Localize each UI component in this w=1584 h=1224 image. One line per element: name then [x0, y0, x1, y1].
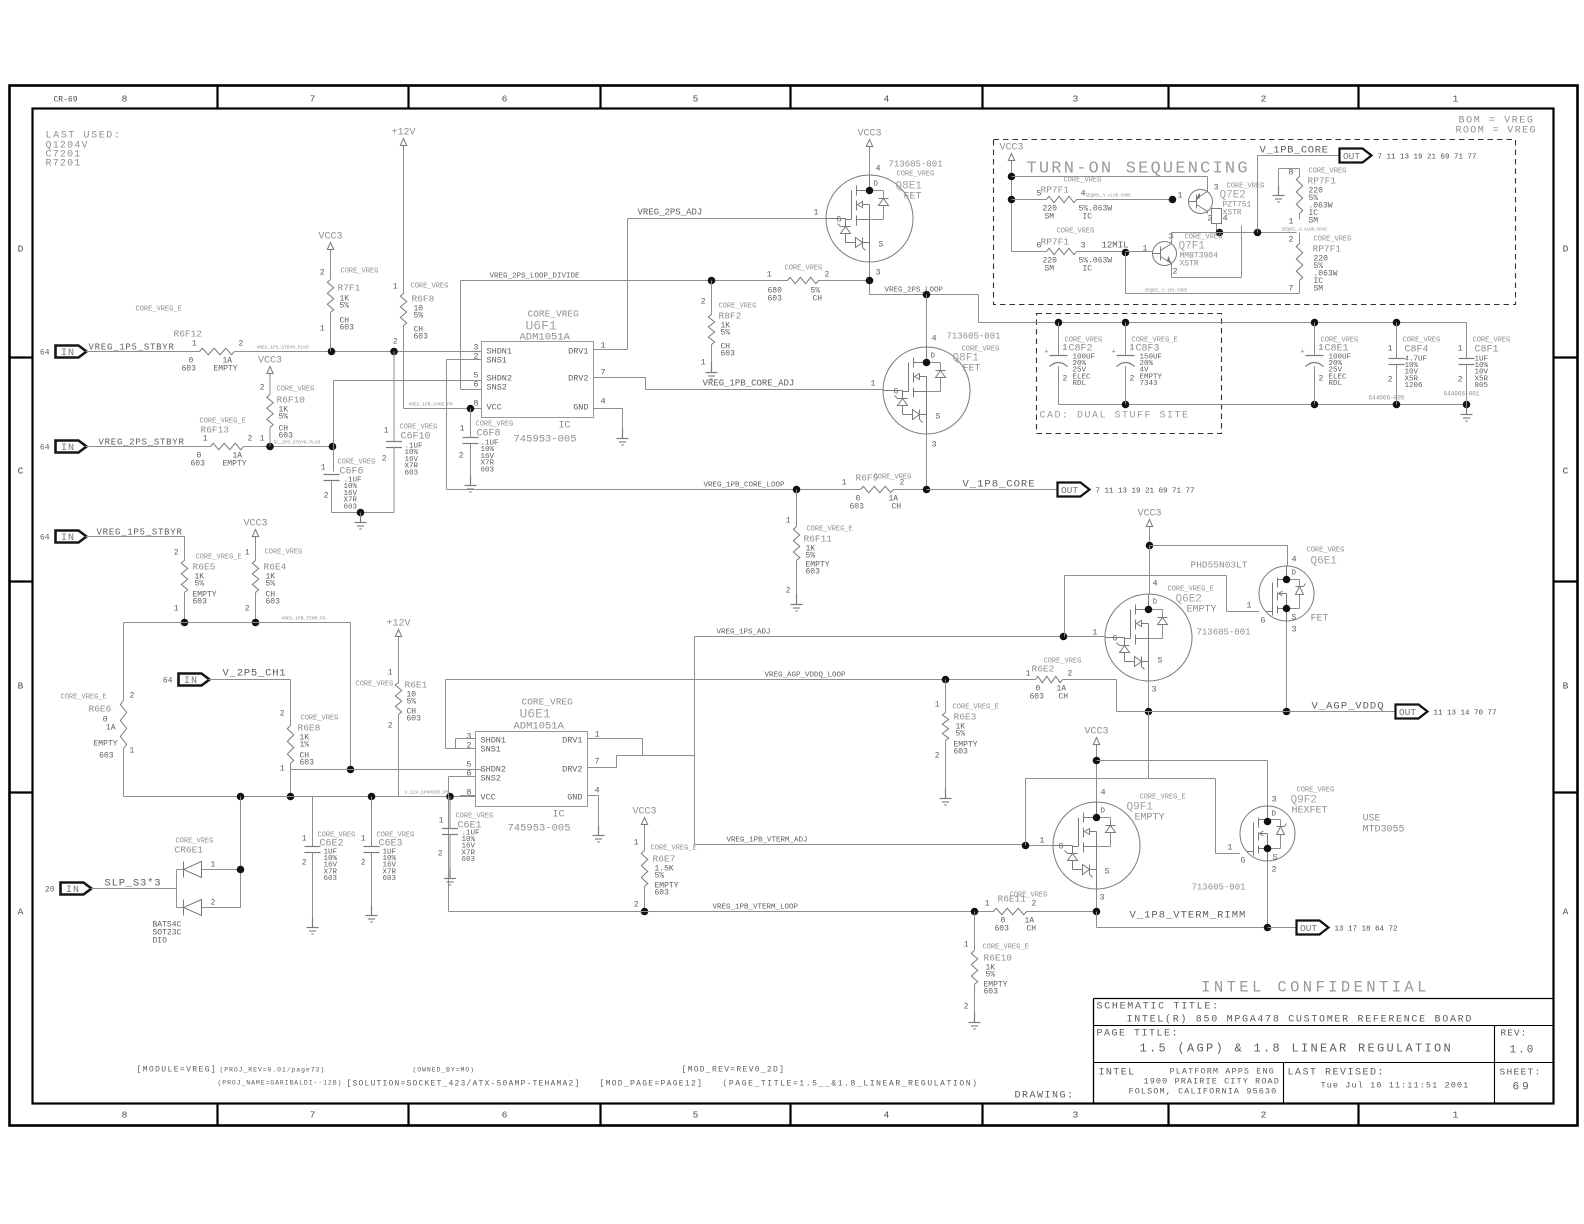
svg-text:2: 2 — [211, 899, 216, 908]
svg-text:CORE_VREG_E: CORE_VREG_E — [61, 694, 107, 702]
svg-text:CORE_VREG: CORE_VREG — [338, 459, 376, 467]
svg-text:EMPTY: EMPTY — [1187, 605, 1217, 616]
svg-text:2: 2 — [1261, 1110, 1267, 1121]
svg-text:GND: GND — [567, 793, 582, 803]
input port IN V_2P5_CH1 (pin 64) — [163, 674, 210, 688]
wire Q6E2 source — [1148, 681, 1150, 712]
svg-text:1%: 1% — [300, 741, 310, 750]
junction top bus x1058 — [1055, 319, 1063, 327]
junction CR6E1 node — [237, 866, 245, 874]
svg-text:SNS2: SNS2 — [481, 774, 501, 784]
svg-text:CORE_VREG: CORE_VREG — [1064, 177, 1102, 185]
svg-text:Q6E1: Q6E1 — [1311, 556, 1338, 568]
svg-text:FET: FET — [904, 192, 922, 203]
wire VREG_1PB_VTERM_ADJ — [695, 844, 1026, 846]
input port IN VREG_1P5_STBYR b (pin 64) — [40, 531, 87, 545]
svg-text:1: 1 — [786, 517, 791, 526]
wire DRV1 to VREG_2PS_ADJ — [594, 219, 628, 350]
power +12V above R6F8 — [391, 128, 415, 148]
wire VREG_1PS_STBYR_PLUS — [235, 345, 482, 352]
svg-text:3: 3 — [1292, 625, 1297, 635]
wire VCC3 to Q9F1 — [1096, 747, 1098, 803]
svg-text:1: 1 — [460, 425, 465, 434]
svg-text:2: 2 — [786, 587, 791, 596]
svg-text:2: 2 — [1288, 235, 1293, 245]
svg-text:D: D — [1272, 811, 1277, 819]
svg-text:OUT: OUT — [1061, 485, 1078, 496]
svg-text:TURN-ON SEQUENCING: TURN-ON SEQUENCING — [1027, 160, 1250, 179]
ground in sequencing box — [1273, 186, 1285, 203]
svg-text:4: 4 — [601, 397, 606, 407]
svg-text:SCHEMATIC TITLE:: SCHEMATIC TITLE: — [1097, 1002, 1220, 1013]
svg-text:EMPTY: EMPTY — [1135, 813, 1165, 824]
capacitor C6F6 — [321, 459, 376, 513]
junction Q8E1 source node — [866, 277, 874, 285]
svg-text:603: 603 — [193, 598, 208, 607]
junction VTERM at Q9F1 — [1093, 908, 1101, 916]
junction bus796 at R6E8 — [287, 793, 295, 801]
svg-text:D: D — [931, 353, 936, 361]
svg-text:G: G — [1059, 843, 1064, 852]
svg-text:S: S — [1105, 868, 1110, 877]
svg-text:CORE_VREG: CORE_VREG — [411, 283, 449, 291]
svg-text:SM: SM — [1314, 285, 1324, 294]
wire U6E1 VCC stub — [461, 796, 476, 797]
resistor RP7F1 5-4 — [1012, 177, 1173, 222]
svg-text:7: 7 — [310, 1110, 316, 1121]
label CAD DUAL STUFF SITE — [1040, 411, 1190, 422]
junction bottom bus x1396 — [1393, 401, 1401, 409]
junction bottom bus gnd — [1463, 401, 1471, 409]
svg-text:(PAGE_TITLE=1.5__&1.8_LINEAR_R: (PAGE_TITLE=1.5__&1.8_LINEAR_REGULATION) — [723, 1080, 979, 1089]
svg-text:603: 603 — [984, 988, 999, 997]
net label VREG_AGP_VDDQ_LOOP — [765, 672, 847, 680]
wire VCC3 to R6E7 — [644, 827, 646, 851]
ground below C6E3 — [366, 906, 378, 923]
svg-text:2: 2 — [1272, 865, 1277, 875]
resistor R6E1 — [356, 669, 428, 797]
svg-text:FET: FET — [963, 364, 981, 375]
svg-text:IC: IC — [1083, 265, 1093, 274]
wire seq mid row — [1220, 232, 1297, 234]
svg-text:CORE_VREG: CORE_VREG — [874, 474, 912, 482]
svg-text:R6E5: R6E5 — [193, 562, 216, 573]
wire VCC3 to R7F1 — [330, 252, 332, 280]
svg-text:7 11 13 19 21 69 71 77: 7 11 13 19 21 69 71 77 — [1378, 154, 1477, 162]
svg-text:R6E11: R6E11 — [998, 894, 1027, 905]
resistor R6F8 — [393, 283, 449, 409]
wire Q7F1 base bottom loop — [1126, 253, 1300, 294]
ground below R6E3 — [940, 789, 952, 806]
wire VCC3 to Q6E2/Q6E1 — [1149, 529, 1151, 552]
wire Q6E2 gate node — [1064, 636, 1106, 638]
svg-text:1: 1 — [1063, 344, 1068, 353]
junction top bus x1314 — [1311, 319, 1319, 327]
wire VREG_1PB_VTERM_LOOP — [449, 911, 994, 913]
dashed box CAD DUAL STUFF SITE — [1037, 314, 1222, 434]
svg-text:G: G — [1241, 857, 1246, 866]
svg-text:V_1P8_VTERM_RIMM: V_1P8_VTERM_RIMM — [1130, 910, 1247, 922]
transistor Q8E1 (FET 713605-001) — [813, 160, 942, 278]
svg-text:1: 1 — [280, 765, 285, 774]
wire U6E1 SHDN1 stub — [456, 739, 476, 749]
wire CR6E1 to bus796 — [240, 797, 242, 870]
svg-text:S: S — [879, 241, 884, 250]
svg-text:2: 2 — [935, 752, 940, 761]
wire VTERM to out — [1268, 927, 1297, 929]
svg-text:2: 2 — [825, 271, 830, 280]
svg-text:6: 6 — [502, 94, 508, 105]
wire VREG_AGP_VDDQ_LOOP — [446, 679, 1036, 681]
svg-text:1: 1 — [701, 359, 706, 368]
net label VREG_2PS_LOOP — [885, 287, 944, 295]
svg-text:CORE_VREG: CORE_VREG — [897, 171, 935, 179]
wire Q6E2 drain — [1149, 546, 1151, 595]
svg-text:G: G — [1113, 635, 1118, 644]
svg-text:6: 6 — [502, 1110, 508, 1121]
svg-text:1: 1 — [302, 835, 307, 844]
svg-text:ADM1051A: ADM1051A — [514, 721, 565, 733]
wire V_2P5_CH1 to R6E8 — [209, 680, 291, 726]
svg-text:D: D — [1292, 570, 1297, 578]
wire shdn2 row — [291, 769, 482, 771]
svg-text:C: C — [1563, 466, 1569, 477]
diode CR6E1 BATS4C — [153, 838, 241, 946]
input port IN VREG_2PS_STBYR (pin 64) — [40, 441, 87, 455]
svg-text:8: 8 — [1288, 168, 1293, 178]
junction V_AGP at Q6E1 — [1283, 708, 1291, 716]
junction VREG_2PS_LOOP at Q8F1 drain — [923, 291, 931, 299]
svg-text:64: 64 — [163, 677, 173, 686]
svg-text:1: 1 — [260, 435, 265, 444]
svg-text:IC: IC — [552, 810, 564, 821]
junction Q9F1 gate — [1022, 842, 1030, 850]
svg-text:VREG_2PS_LOOP_DIVIDE: VREG_2PS_LOOP_DIVIDE — [490, 273, 581, 281]
svg-text:3: 3 — [1073, 1110, 1079, 1121]
junction Q7E2 emitter row — [1216, 229, 1224, 237]
svg-text:V_1PB_CORE: V_1PB_CORE — [1260, 145, 1329, 157]
svg-text:PAGE TITLE:: PAGE TITLE: — [1097, 1029, 1180, 1040]
net label VREG_1PB_CORE_ADJ — [703, 379, 795, 389]
svg-text:2: 2 — [248, 435, 253, 444]
svg-text:4: 4 — [1292, 555, 1297, 565]
svg-text:[MODULE=VREG]: [MODULE=VREG] — [137, 1066, 218, 1075]
dashed box TURN-ON SEQUENCING — [994, 140, 1516, 305]
junction bus622 at R6E4 — [252, 619, 260, 627]
svg-text:R6F10: R6F10 — [277, 395, 306, 406]
resistor R6E3 — [935, 680, 999, 789]
svg-text:4: 4 — [932, 334, 937, 344]
svg-text:R6E1: R6E1 — [405, 680, 428, 691]
resistor R6E11 — [985, 892, 1097, 934]
svg-text:7: 7 — [1288, 284, 1293, 294]
wire VREG_2PS_ADJ — [628, 218, 827, 220]
svg-text:CORE_VREG: CORE_VREG — [719, 303, 757, 311]
svg-text:LAST REVISED:: LAST REVISED: — [1288, 1068, 1386, 1079]
svg-text:603: 603 — [462, 856, 476, 864]
svg-text:1: 1 — [388, 669, 393, 678]
junction CORE_LOOP at R6F11 — [793, 486, 801, 494]
output port OUT V_1P8_CORE — [1058, 483, 1195, 497]
junction bottom bus x1125 — [1122, 401, 1130, 409]
svg-text:IC: IC — [558, 421, 570, 432]
svg-text:8: 8 — [122, 94, 128, 105]
net label VREG_1P5_STBYR — [89, 343, 175, 353]
svg-text:2: 2 — [701, 298, 706, 307]
svg-text:2: 2 — [320, 269, 325, 278]
svg-text:S: S — [1292, 614, 1297, 623]
svg-text:603: 603 — [99, 752, 114, 761]
junction bus796 C6E3 — [368, 793, 376, 801]
net label SLP_S3*3 — [105, 878, 162, 890]
resistor R7F1 — [320, 268, 379, 352]
power VCC3 above Q6E2 — [1137, 509, 1161, 529]
svg-text:2: 2 — [245, 605, 250, 614]
svg-text:[MOD_REV=REV0_2D]: [MOD_REV=REV0_2D] — [682, 1066, 786, 1075]
svg-text:5: 5 — [693, 1110, 699, 1121]
net label VREG_1PB_VTERM_LOOP — [713, 904, 799, 912]
svg-text:1: 1 — [439, 817, 444, 826]
svg-text:S: S — [1158, 657, 1163, 666]
wire VREG_2PS_LOOP to stuff-site bus — [978, 295, 980, 323]
svg-text:R8F2: R8F2 — [719, 311, 742, 322]
label USE MTD3055 — [1363, 814, 1405, 836]
svg-text:PHD55N03LT: PHD55N03LT — [1191, 560, 1248, 571]
junction seq mid row at stack — [1254, 229, 1262, 237]
input port IN VREG_1P5_STBYR (pin 64) — [40, 346, 87, 360]
wire U6E1 SNS1 to VDDQ loop — [446, 680, 476, 749]
svg-text:4: 4 — [595, 786, 600, 796]
svg-text:7343: 7343 — [1140, 380, 1159, 388]
svg-text:69: 69 — [1513, 1082, 1532, 1094]
svg-text:VREG_1PB_CORE_PM: VREG_1PB_CORE_PM — [409, 402, 453, 408]
svg-text:R6E4: R6E4 — [264, 562, 287, 573]
svg-text:INTEL(R) 850 MPGA478 CUSTOMER: INTEL(R) 850 MPGA478 CUSTOMER REFERENCE … — [1127, 1014, 1474, 1026]
wire +12V down to R6F8 — [403, 148, 405, 294]
svg-text:CH: CH — [892, 503, 902, 512]
transistor Q9F2 HEXFET — [1227, 787, 1334, 875]
wire VCC3 to R6E4 — [255, 539, 257, 561]
svg-text:DIO: DIO — [153, 937, 168, 946]
svg-text:603: 603 — [1030, 693, 1045, 702]
svg-text:2: 2 — [130, 692, 135, 701]
svg-text:G: G — [837, 216, 842, 225]
svg-text:DRV2: DRV2 — [562, 765, 582, 775]
junction bus796 CR6E1 — [237, 793, 245, 801]
svg-text:1: 1 — [1026, 670, 1031, 679]
svg-text:VREG_2PS_ADJ: VREG_2PS_ADJ — [638, 208, 703, 218]
power VCC3 above Q9F1 — [1084, 727, 1108, 747]
ic U6E1 ADM1051A — [466, 697, 599, 835]
wire row2 to junctions — [244, 440, 334, 447]
junction seq vcc row1 — [1008, 173, 1016, 181]
svg-text:713605-001: 713605-001 — [947, 332, 1001, 342]
svg-text:ADM1051A: ADM1051A — [520, 332, 571, 344]
svg-text:G: G — [894, 388, 899, 397]
svg-text:1: 1 — [321, 464, 326, 473]
svg-text:603: 603 — [806, 568, 821, 577]
wire gate loop to Q6E1 — [1065, 576, 1260, 637]
ground below cap bus — [355, 513, 367, 530]
svg-text:1206: 1206 — [1405, 382, 1424, 390]
svg-text:5%: 5% — [195, 580, 205, 589]
junction divide at R8F2 — [708, 277, 716, 285]
svg-text:VREG_1PS_ADJ: VREG_1PS_ADJ — [717, 629, 771, 637]
wire V_1PB_CORE from stack — [1258, 156, 1340, 233]
wire VREG_1PS_ADJ — [695, 636, 1064, 638]
svg-text:+12V: +12V — [386, 619, 410, 630]
svg-text:713605-001: 713605-001 — [1197, 628, 1251, 638]
junction VCC3 Q9F1 — [1093, 757, 1101, 765]
svg-text:1: 1 — [1177, 191, 1182, 201]
svg-text:U6E1: U6E1 — [520, 707, 551, 722]
svg-text:VREG_AGP_VDDQ_LOOP: VREG_AGP_VDDQ_LOOP — [765, 672, 847, 680]
svg-text:1: 1 — [1388, 345, 1393, 354]
svg-text:13 17 18 64 72: 13 17 18 64 72 — [1335, 926, 1398, 934]
svg-text:64: 64 — [40, 349, 50, 358]
net label VREG_1PB_VTERM_ADJ — [727, 837, 808, 845]
svg-text:VCC3: VCC3 — [243, 519, 267, 530]
wire VDDQ loop corner — [1116, 680, 1118, 712]
svg-text:644066-005: 644066-005 — [1369, 395, 1405, 402]
power VCC3 above Q8E1 — [857, 129, 881, 149]
svg-text:CORE_VREG_E: CORE_VREG_E — [200, 418, 246, 426]
net label V_1P8_VTERM_RIMM — [1130, 910, 1247, 922]
svg-text:DRAWING:: DRAWING: — [1015, 1091, 1075, 1102]
svg-text:CORE_VREG_E: CORE_VREG_E — [136, 306, 182, 314]
svg-text:CORE_VREG_E: CORE_VREG_E — [1140, 794, 1186, 802]
wire U6F1 VCC row (VREG_1PB_CORE_PM) — [404, 402, 482, 409]
svg-text:RP7F1: RP7F1 — [1308, 176, 1337, 187]
svg-text:IN: IN — [61, 348, 75, 359]
net label VREG_2PS_ADJ — [638, 208, 703, 218]
svg-text:S: S — [936, 413, 941, 422]
svg-text:1: 1 — [842, 479, 847, 488]
net label VREG_1PS_ADJ — [717, 629, 771, 637]
svg-text:5%: 5% — [721, 329, 731, 338]
svg-text:D: D — [18, 244, 24, 255]
svg-text:644066-001: 644066-001 — [1444, 391, 1480, 398]
svg-text:5: 5 — [693, 94, 699, 105]
svg-text:2: 2 — [1063, 375, 1068, 384]
wire V_AGP drop crossing — [1148, 712, 1150, 779]
wire Q8E1 source to VREG_2PS_LOOP — [870, 262, 979, 295]
label 644066-001 — [1444, 391, 1480, 398]
svg-text:1: 1 — [1458, 345, 1463, 354]
svg-text:1.0: 1.0 — [1510, 1045, 1536, 1057]
svg-text:7 11 13 19 21 69 71 77: 7 11 13 19 21 69 71 77 — [1096, 488, 1195, 496]
svg-text:IN: IN — [61, 533, 75, 544]
svg-text:1900 PRAIRIE CITY ROAD: 1900 PRAIRIE CITY ROAD — [1144, 1077, 1280, 1087]
svg-text:5%: 5% — [407, 698, 417, 707]
svg-text:SNS2: SNS2 — [487, 383, 507, 393]
svg-text:2: 2 — [361, 859, 366, 868]
junction top bus x1396 — [1393, 319, 1401, 327]
transistor Q8F1 (FET 713605-001) — [870, 332, 1000, 450]
svg-text:RP7F1: RP7F1 — [1041, 237, 1070, 248]
power VCC3 above R7F1 — [318, 232, 342, 252]
svg-text:R7201: R7201 — [46, 159, 82, 170]
svg-text:C8F1: C8F1 — [1475, 345, 1499, 356]
resistor R6E8 — [280, 710, 339, 774]
svg-text:2: 2 — [1458, 376, 1463, 385]
svg-text:1: 1 — [211, 861, 216, 870]
svg-text:7: 7 — [310, 94, 316, 105]
svg-text:1: 1 — [1227, 843, 1232, 853]
svg-text:VCC3: VCC3 — [999, 143, 1023, 154]
wire stuff-site bottom bus — [1059, 404, 1467, 406]
svg-text:FOLSOM, CALIFORNIA 95630: FOLSOM, CALIFORNIA 95630 — [1129, 1087, 1278, 1097]
svg-text:2: 2 — [382, 455, 387, 464]
svg-text:713605-001: 713605-001 — [889, 160, 943, 170]
junction bottom bus x1314 — [1311, 401, 1319, 409]
svg-text:2: 2 — [964, 1003, 969, 1012]
resistor R6E6 — [61, 692, 135, 797]
svg-text:20: 20 — [45, 886, 55, 895]
svg-text:2: 2 — [634, 901, 639, 910]
svg-text:VCC3: VCC3 — [857, 129, 881, 140]
resistor R6F10 — [260, 384, 315, 447]
svg-text:603: 603 — [405, 469, 419, 477]
transistor Q7F1 MMBT3904 — [1142, 232, 1222, 277]
svg-text:R6F8: R6F8 — [412, 294, 435, 305]
svg-text:3: 3 — [932, 440, 937, 450]
wire U6E1 GND pin — [588, 796, 599, 826]
wire row3 to R6E5 — [86, 537, 185, 561]
svg-text:+12V: +12V — [391, 128, 415, 139]
junction gnd bus — [357, 509, 365, 517]
wire Q7F1 emitter — [1172, 226, 1242, 278]
wire V_1P8_CORE to out — [927, 489, 1058, 491]
drawing label — [1015, 1091, 1075, 1102]
svg-text:VCC: VCC — [487, 403, 502, 413]
wire U6F1 SNS1 to VDDQ loop column — [447, 360, 482, 490]
svg-text:3: 3 — [876, 268, 881, 278]
output port OUT V_AGP_VDDQ — [1396, 705, 1497, 719]
wire Q7E2 emitter net — [1212, 209, 1222, 233]
svg-text:USE: USE — [1363, 814, 1381, 825]
svg-text:R7F1: R7F1 — [338, 283, 361, 294]
svg-text:603: 603 — [383, 875, 397, 883]
svg-text:7: 7 — [601, 368, 606, 378]
svg-text:1: 1 — [634, 839, 639, 848]
net label 12MIL — [1102, 241, 1129, 251]
net label VREG_1PB_CORE_LOOP — [704, 482, 786, 490]
svg-text:5%: 5% — [279, 413, 289, 422]
ground below C6E1 — [444, 869, 456, 886]
svg-text:CR6E1: CR6E1 — [175, 845, 204, 856]
svg-text:1: 1 — [813, 208, 818, 218]
svg-text:R6F11: R6F11 — [804, 534, 833, 545]
junction top bus x1125 — [1122, 319, 1130, 327]
svg-text:VREG_1PB_CORE_LOOP: VREG_1PB_CORE_LOOP — [704, 482, 786, 490]
wire stuff-site top bus — [979, 322, 1467, 324]
svg-text:5%: 5% — [340, 302, 350, 311]
svg-text:603: 603 — [850, 503, 865, 512]
wire VCC3 to Q6E1 drain — [1150, 546, 1288, 567]
wire VREG_2PS_LOOP_DIVIDE — [461, 280, 775, 282]
svg-text:2: 2 — [393, 338, 398, 347]
svg-text:R6E6: R6E6 — [89, 704, 112, 715]
svg-text:+: + — [1045, 349, 1049, 357]
wire U6E1 DRV2 route — [588, 756, 695, 768]
svg-text:2: 2 — [1173, 267, 1178, 277]
svg-text:VREG_1PS_STBYR_PLUS: VREG_1PS_STBYR_PLUS — [257, 345, 310, 351]
svg-text:CORE_VREG: CORE_VREG — [301, 715, 339, 723]
svg-text:CAD: DUAL STUFF SITE: CAD: DUAL STUFF SITE — [1040, 411, 1190, 422]
svg-text:SNS1: SNS1 — [481, 745, 501, 755]
svg-text:603: 603 — [721, 350, 736, 359]
